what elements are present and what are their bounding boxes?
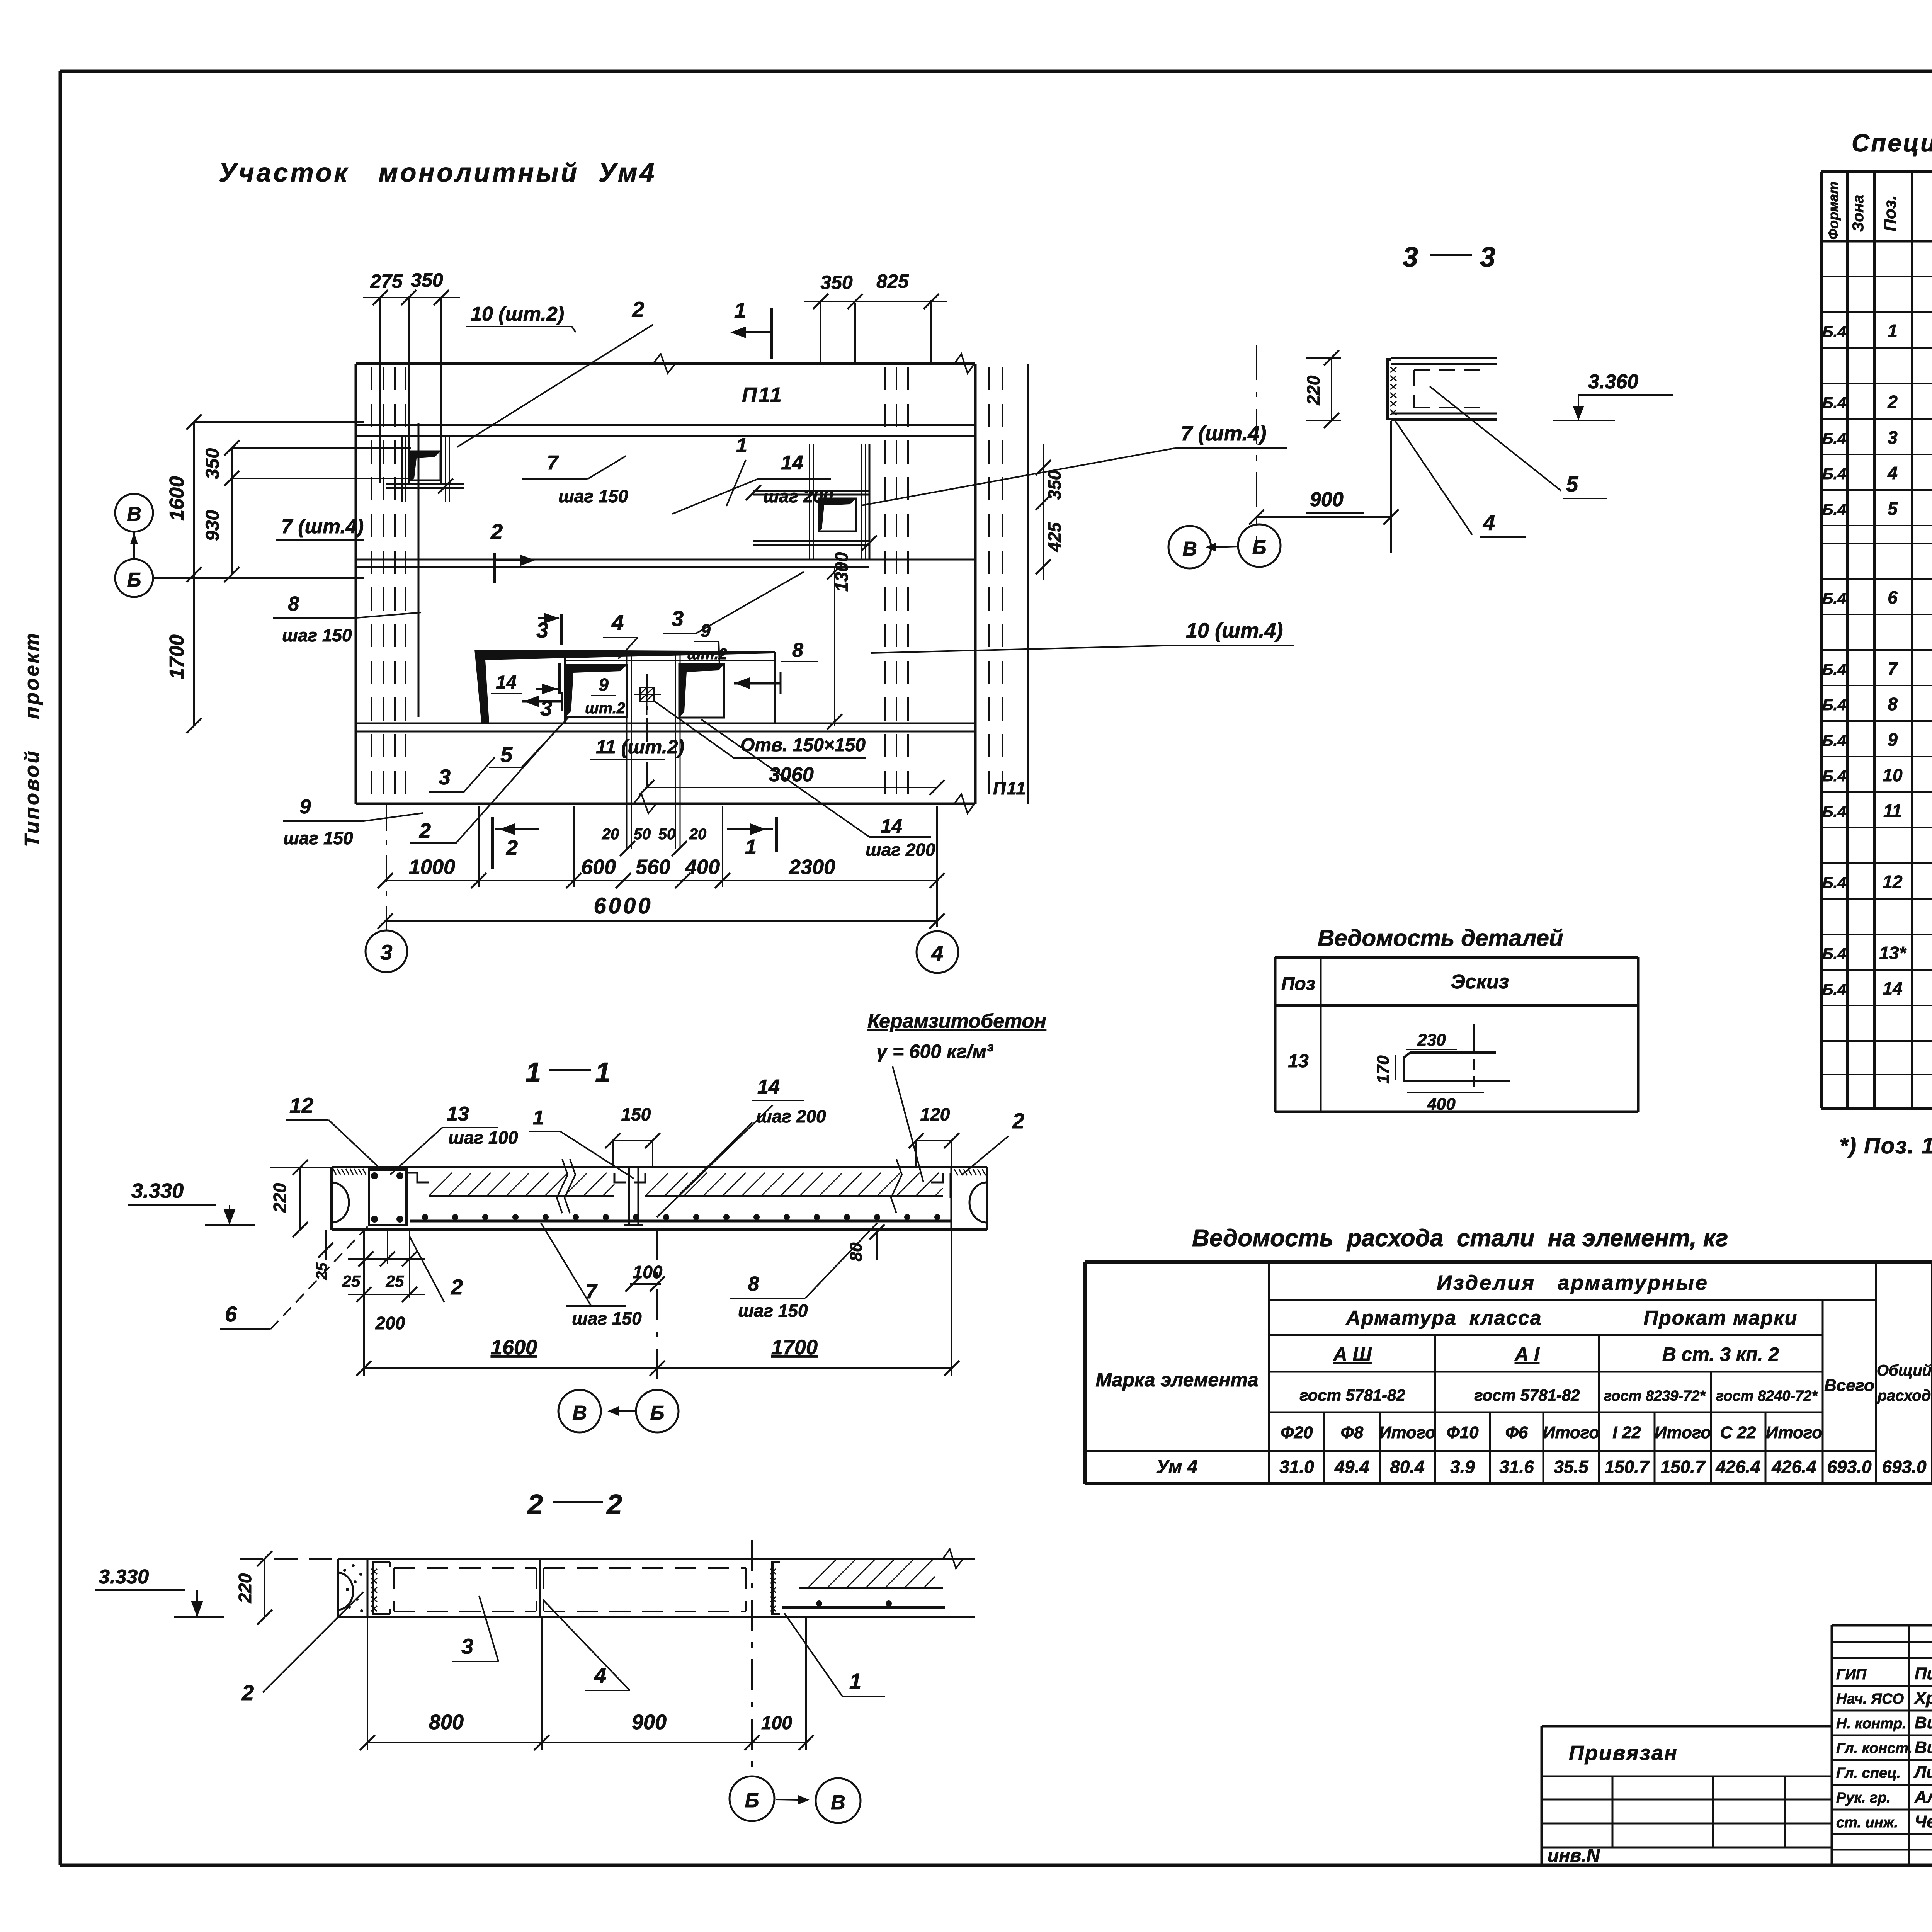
svg-text:Б.4: Б.4 (1822, 590, 1846, 607)
svg-text:200: 200 (375, 1313, 405, 1333)
svg-text:230: 230 (1417, 1031, 1446, 1049)
svg-text:4: 4 (1887, 463, 1898, 483)
svg-text:Б.4: Б.4 (1822, 697, 1846, 714)
svg-text:Ум 4: Ум 4 (1156, 1457, 1198, 1477)
svg-text:150: 150 (621, 1104, 651, 1124)
svg-text:6: 6 (225, 1302, 237, 1326)
svg-text:100: 100 (761, 1713, 792, 1733)
svg-text:3: 3 (540, 696, 552, 720)
svg-text:Ведомость деталей: Ведомость деталей (1318, 925, 1563, 951)
svg-text:шаг 150: шаг 150 (572, 1308, 642, 1328)
svg-text:2: 2 (606, 1489, 622, 1520)
svg-text:170: 170 (1374, 1055, 1393, 1084)
svg-text:Итого: Итого (1543, 1423, 1599, 1442)
svg-text:10: 10 (1883, 765, 1903, 785)
svg-text:25: 25 (386, 1272, 404, 1290)
svg-text:Винклер: Винклер (1915, 1738, 1932, 1757)
svg-text:1700: 1700 (771, 1336, 818, 1359)
svg-text:25: 25 (342, 1272, 361, 1290)
svg-text:Б: Б (1252, 536, 1267, 559)
svg-text:Б.4: Б.4 (1822, 874, 1846, 891)
svg-text:35.5: 35.5 (1554, 1457, 1589, 1477)
svg-text:шаг 200: шаг 200 (866, 840, 935, 860)
svg-text:Керамзитобетон: Керамзитобетон (867, 1010, 1046, 1032)
svg-text:шт.2: шт.2 (687, 646, 727, 663)
svg-text:В: В (831, 1791, 845, 1814)
svg-text:9: 9 (599, 675, 609, 695)
svg-text:6: 6 (1888, 587, 1898, 607)
svg-text:Винклер: Винклер (1915, 1713, 1932, 1732)
svg-text:220: 220 (1303, 375, 1323, 405)
svg-text:220: 220 (270, 1183, 290, 1213)
svg-text:10 (шт.4): 10 (шт.4) (1186, 619, 1283, 642)
svg-text:120: 120 (920, 1104, 950, 1124)
svg-text:2: 2 (527, 1489, 543, 1520)
svg-text:3.330: 3.330 (131, 1179, 184, 1202)
svg-text:7: 7 (547, 452, 559, 474)
svg-text:Б.4: Б.4 (1822, 661, 1846, 678)
svg-text:150.7: 150.7 (1660, 1457, 1706, 1477)
svg-text:Арматура класса: Арматура класса (1345, 1307, 1542, 1329)
svg-text:шаг 200: шаг 200 (763, 486, 833, 506)
svg-text:425: 425 (1044, 522, 1065, 552)
svg-text:Б.4: Б.4 (1822, 430, 1846, 447)
svg-text:20: 20 (689, 826, 707, 843)
svg-text:Нач. ЯСО: Нач. ЯСО (1836, 1691, 1904, 1707)
svg-text:А I: А I (1514, 1344, 1540, 1365)
svg-text:13: 13 (447, 1103, 469, 1125)
svg-text:В: В (1182, 538, 1197, 560)
svg-text:2: 2 (632, 297, 644, 321)
svg-text:426.4: 426.4 (1715, 1457, 1760, 1477)
svg-text:2: 2 (1012, 1109, 1024, 1133)
svg-text:*) Поз. 13 — с м. ведомость: *) Поз. 13 — с м. ведомость деталей (1839, 1133, 1932, 1158)
svg-text:гост 8239-72*: гост 8239-72* (1604, 1388, 1706, 1404)
svg-text:14: 14 (881, 815, 902, 837)
svg-text:13: 13 (1288, 1051, 1309, 1071)
svg-text:1: 1 (849, 1669, 861, 1693)
svg-text:Ф8: Ф8 (1341, 1423, 1364, 1442)
svg-text:4: 4 (611, 610, 624, 634)
svg-text:3: 3 (1403, 242, 1418, 273)
svg-text:1700: 1700 (166, 634, 188, 679)
svg-text:4: 4 (931, 941, 943, 965)
svg-text:Б.4: Б.4 (1822, 732, 1846, 749)
svg-text:2: 2 (506, 836, 518, 859)
svg-text:шаг 150: шаг 150 (738, 1301, 808, 1321)
svg-text:350: 350 (411, 269, 443, 291)
svg-text:Б: Б (745, 1789, 759, 1812)
svg-text:шаг 150: шаг 150 (283, 828, 353, 848)
svg-text:1: 1 (1888, 321, 1898, 341)
svg-text:900: 900 (632, 1711, 667, 1734)
svg-text:1: 1 (745, 835, 757, 859)
svg-text:3: 3 (1888, 427, 1898, 447)
svg-text:9: 9 (701, 621, 711, 641)
svg-text:80.4: 80.4 (1390, 1457, 1425, 1477)
svg-text:150.7: 150.7 (1604, 1457, 1650, 1477)
svg-text:Итого: Итого (1379, 1423, 1435, 1442)
svg-text:1300: 1300 (832, 552, 852, 592)
svg-text:3: 3 (439, 765, 451, 789)
svg-text:Поз.: Поз. (1881, 195, 1900, 231)
svg-text:275: 275 (370, 270, 403, 292)
svg-text:3: 3 (672, 606, 684, 631)
svg-text:шаг 100: шаг 100 (448, 1128, 518, 1148)
svg-text:900: 900 (1310, 488, 1344, 511)
svg-text:1600: 1600 (166, 476, 188, 521)
svg-text:400: 400 (1427, 1095, 1456, 1114)
svg-text:Рук. гр.: Рук. гр. (1836, 1790, 1891, 1806)
svg-text:80: 80 (847, 1242, 866, 1261)
svg-text:12: 12 (289, 1093, 313, 1117)
svg-text:Отв. 150×150: Отв. 150×150 (740, 735, 866, 755)
svg-text:Ведомость расхода стали на: Ведомость расхода стали на элемент, кг (1192, 1225, 1728, 1252)
svg-text:Общий: Общий (1877, 1362, 1932, 1379)
svg-text:12: 12 (1883, 872, 1903, 892)
svg-text:1: 1 (595, 1057, 611, 1088)
svg-text:Зона: Зона (1850, 195, 1867, 232)
svg-text:3.9: 3.9 (1450, 1457, 1475, 1477)
svg-text:3: 3 (461, 1634, 473, 1658)
svg-text:Спецификация участка моно: Спецификация участка монолитного Ум 4 (1852, 129, 1932, 157)
svg-text:825: 825 (876, 270, 909, 292)
svg-text:гост 8240-72*: гост 8240-72* (1716, 1388, 1818, 1404)
svg-text:Гл. спец.: Гл. спец. (1836, 1765, 1901, 1781)
svg-text:3.360: 3.360 (1588, 371, 1638, 393)
svg-text:Черкасова: Черкасова (1915, 1812, 1932, 1831)
svg-text:3: 3 (380, 940, 392, 964)
svg-text:2: 2 (241, 1680, 254, 1705)
svg-text:800: 800 (429, 1711, 464, 1734)
svg-text:шт.2: шт.2 (585, 700, 625, 717)
svg-text:Б.4: Б.4 (1822, 981, 1846, 998)
svg-text:9: 9 (1888, 730, 1898, 750)
svg-text:31.6: 31.6 (1499, 1457, 1534, 1477)
svg-text:Б.4: Б.4 (1822, 768, 1846, 785)
svg-text:1: 1 (734, 298, 746, 322)
svg-text:Хрупало: Хрупало (1913, 1689, 1932, 1708)
svg-text:693.0: 693.0 (1827, 1457, 1872, 1477)
svg-text:1600: 1600 (491, 1336, 537, 1359)
svg-text:В: В (572, 1402, 587, 1424)
svg-text:350: 350 (202, 448, 223, 479)
svg-text:7: 7 (1888, 658, 1898, 679)
svg-text:2: 2 (490, 519, 503, 544)
svg-text:С 22: С 22 (1720, 1423, 1756, 1442)
svg-text:6000: 6000 (594, 893, 653, 918)
svg-text:Формат: Формат (1825, 182, 1841, 240)
svg-text:Итого: Итого (1655, 1423, 1711, 1442)
svg-text:Н. контр.: Н. контр. (1836, 1716, 1906, 1732)
svg-text:Ф20: Ф20 (1281, 1423, 1313, 1442)
svg-text:1: 1 (736, 434, 747, 457)
svg-text:Поз: Поз (1281, 974, 1315, 994)
svg-text:Пивторак: Пивторак (1915, 1664, 1932, 1683)
svg-text:Участок монолитный Ум4: Участок монолитный Ум4 (219, 158, 656, 187)
svg-text:Б: Б (127, 569, 141, 591)
svg-text:Б.4: Б.4 (1822, 323, 1846, 340)
svg-text:Ф10: Ф10 (1446, 1423, 1479, 1442)
svg-text:Б.4: Б.4 (1822, 466, 1846, 483)
svg-text:Ф6: Ф6 (1505, 1423, 1528, 1442)
svg-text:Всего: Всего (1824, 1376, 1874, 1395)
svg-text:2: 2 (1887, 392, 1898, 412)
svg-text:гост 5781-82: гост 5781-82 (1299, 1386, 1405, 1404)
svg-text:Гл. конст.: Гл. конст. (1836, 1740, 1912, 1757)
svg-text:шаг 150: шаг 150 (558, 486, 628, 506)
svg-text:4: 4 (594, 1663, 606, 1687)
svg-text:14: 14 (757, 1076, 780, 1098)
svg-text:В ст. 3 кп. 2: В ст. 3 кп. 2 (1662, 1344, 1779, 1365)
svg-text:31.0: 31.0 (1279, 1457, 1314, 1477)
svg-text:ст. инж.: ст. инж. (1836, 1815, 1898, 1831)
svg-text:Привязан: Привязан (1569, 1742, 1678, 1765)
svg-text:1000: 1000 (409, 855, 455, 879)
svg-text:560: 560 (636, 855, 670, 879)
svg-text:П11: П11 (742, 383, 783, 406)
svg-text:25: 25 (313, 1262, 330, 1280)
svg-text:50: 50 (658, 826, 676, 843)
svg-text:14: 14 (1883, 978, 1902, 998)
svg-text:1: 1 (526, 1057, 541, 1088)
svg-text:2: 2 (419, 819, 431, 842)
svg-text:49.4: 49.4 (1334, 1457, 1369, 1477)
svg-text:10 (шт.2): 10 (шт.2) (471, 303, 564, 325)
svg-text:7 (шт.4): 7 (шт.4) (281, 515, 364, 538)
svg-text:Типовой проект: Типовой проект (21, 631, 43, 847)
svg-text:γ = 600 кг/м³: γ = 600 кг/м³ (876, 1041, 993, 1062)
svg-text:13*: 13* (1879, 943, 1906, 963)
svg-text:693.0: 693.0 (1882, 1457, 1927, 1477)
svg-text:426.4: 426.4 (1771, 1457, 1816, 1477)
svg-text:600: 600 (581, 855, 616, 879)
svg-text:Итого: Итого (1766, 1423, 1822, 1442)
svg-text:8: 8 (792, 639, 803, 662)
svg-text:1: 1 (533, 1107, 544, 1129)
svg-text:9: 9 (300, 796, 311, 818)
svg-text:350: 350 (1044, 470, 1065, 500)
svg-text:8: 8 (288, 593, 299, 615)
svg-text:11 (шт.2): 11 (шт.2) (596, 736, 684, 758)
svg-text:Б.4: Б.4 (1822, 946, 1846, 963)
svg-text:2: 2 (451, 1275, 463, 1299)
svg-text:Б: Б (650, 1402, 665, 1424)
svg-text:Прокат марки: Прокат марки (1644, 1307, 1798, 1329)
svg-text:шаг 200: шаг 200 (756, 1106, 826, 1126)
svg-text:инв.N: инв.N (1548, 1845, 1600, 1866)
svg-text:Б.4: Б.4 (1822, 803, 1846, 820)
svg-text:11: 11 (1883, 801, 1902, 821)
svg-text:шаг 150: шаг 150 (282, 625, 352, 645)
svg-text:400: 400 (685, 855, 720, 879)
svg-text:5: 5 (500, 742, 513, 767)
svg-text:4: 4 (1483, 510, 1495, 535)
svg-text:В: В (127, 503, 141, 526)
svg-text:350: 350 (820, 272, 853, 293)
svg-text:5: 5 (1566, 472, 1578, 496)
svg-text:3: 3 (1480, 242, 1495, 273)
svg-text:I 22: I 22 (1612, 1423, 1641, 1442)
svg-text:2300: 2300 (789, 855, 835, 879)
svg-text:220: 220 (235, 1573, 255, 1603)
svg-text:Изделия арматурные: Изделия арматурные (1437, 1271, 1709, 1294)
svg-text:Алехова: Алехова (1914, 1787, 1932, 1806)
svg-text:А Ш: А Ш (1333, 1344, 1372, 1365)
svg-text:3.330: 3.330 (99, 1566, 149, 1588)
svg-text:14: 14 (496, 672, 516, 693)
svg-text:5: 5 (1888, 498, 1898, 519)
svg-text:7 (шт.4): 7 (шт.4) (1181, 422, 1266, 445)
svg-text:Б.4: Б.4 (1822, 395, 1846, 412)
svg-text:гост 5781-82: гост 5781-82 (1474, 1386, 1580, 1404)
svg-text:Марка элемента: Марка элемента (1095, 1369, 1258, 1391)
svg-text:П11: П11 (993, 778, 1027, 798)
svg-text:8: 8 (748, 1273, 759, 1295)
svg-text:Лисичкин: Лисичкин (1913, 1763, 1932, 1782)
svg-text:Б.4: Б.4 (1822, 501, 1846, 518)
svg-text:8: 8 (1888, 694, 1898, 714)
svg-text:930: 930 (202, 510, 223, 541)
svg-text:20: 20 (602, 826, 619, 843)
svg-text:расход: расход (1877, 1387, 1931, 1404)
svg-text:Эскиз: Эскиз (1451, 971, 1509, 993)
svg-text:ГИП: ГИП (1836, 1667, 1867, 1683)
svg-text:14: 14 (781, 452, 803, 474)
svg-text:50: 50 (634, 826, 651, 843)
